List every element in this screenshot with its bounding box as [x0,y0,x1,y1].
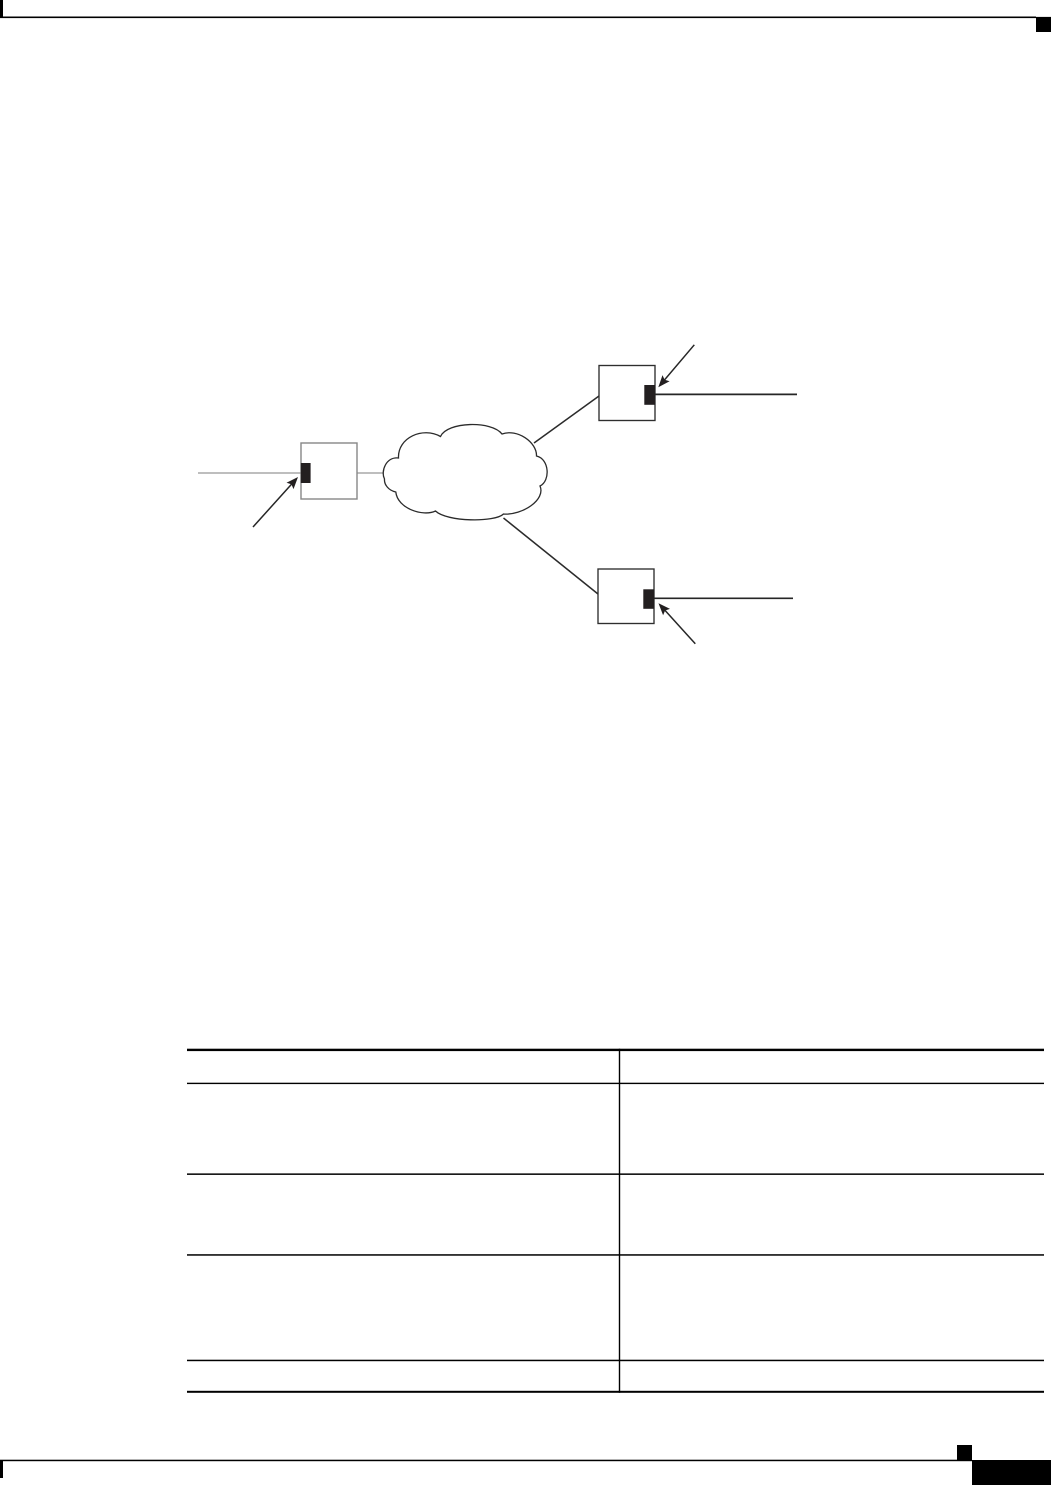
port on R3 (right edge) [643,589,654,609]
port on R2 (right edge) [644,385,655,405]
network cloud [383,425,547,520]
wire: cloud to upper-right router [534,396,599,443]
arrow pointing to R2 port [660,345,694,385]
wire: serial line out of R2 port [655,393,797,395]
arrow pointing to R1 port [253,479,296,527]
table bottom border [187,1391,1044,1393]
footer small square [957,1445,972,1460]
wire: cloud to lower-right router [504,518,599,594]
wire: serial line out of R3 port [654,597,793,599]
router box R2 (upper right) [599,366,655,421]
table row line 4 [187,1360,1044,1362]
router box R3 (lower right) [598,569,654,624]
port on R1 (left edge) [301,463,311,483]
top-left corner tick [0,0,3,18]
top header rule [0,17,1036,19]
table row line 3 [187,1254,1044,1256]
arrow pointing to R3 port [661,605,696,643]
table header row line [187,1083,1044,1084]
table column divider [619,1049,620,1393]
wire: gray serial line into left router [198,472,301,474]
top-right header square [1036,17,1051,32]
router box R1 (left, gray) [301,443,357,499]
wire: gray line left router to cloud [357,472,384,474]
footer page-number block (bottom-right) [972,1460,1051,1485]
bottom-left corner tick [0,1460,3,1478]
bottom footer rule [0,1460,972,1462]
table top border (thick) [187,1049,1044,1051]
table row line 2 [187,1173,1044,1175]
